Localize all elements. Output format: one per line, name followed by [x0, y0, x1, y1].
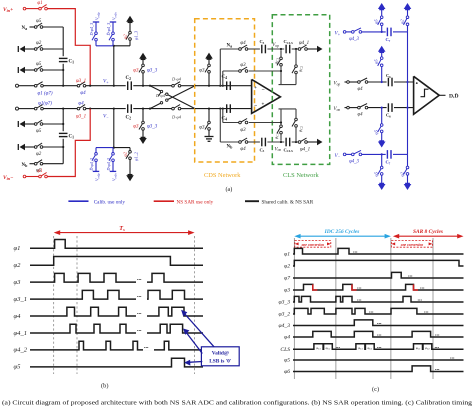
Vcm arrow above phi2 switch (top) [126, 16, 134, 22]
capacitor C4 (bottom) [222, 104, 231, 121]
wire phi3 feedback path (bottom) [223, 122, 281, 124]
svg-text:φ1 (φ7): φ1 (φ7) [37, 91, 52, 96]
switch phiC2 (top, CLS out to amp out) [292, 49, 303, 85]
capacitor C1 (top) [59, 58, 74, 64]
switch phi3 feedback (bottom) [239, 118, 249, 133]
wire phi2 bottom row [43, 146, 63, 148]
svg-text:Na: Na [22, 26, 28, 31]
Vcm arrow below phi2 switch (bottom) [126, 175, 134, 181]
svg-text:φ1: φ1 [37, 169, 42, 174]
switch phi1(phi7) on bottom rail [19, 101, 53, 110]
switch phi4 (top CLS path) [239, 41, 248, 51]
svg-text:D·φ4: D·φ4 [171, 114, 182, 119]
switch phi5 to Vcm (bottom left) [374, 154, 384, 183]
annotation arrow to phi5 [184, 360, 202, 366]
svg-text:φ3_1: φ3_1 [76, 115, 86, 120]
switch phi5 (bottom, to C1 top) [25, 120, 43, 134]
wire bottom rail after C2 [133, 108, 172, 110]
wire bottom rail inside CDS [195, 108, 252, 110]
wire V- row to C7 [362, 153, 386, 155]
wire C3 to Von node [267, 141, 284, 143]
op-amp A1 (fully differential) [252, 79, 281, 113]
wire top rail after C2 [133, 85, 172, 87]
switch Dbar.phi4_3 to Vrefp (bottom left, calib) [89, 148, 101, 181]
svg-text:one conversion: one conversion [302, 243, 324, 247]
capacitor C6 (bottom) [386, 103, 392, 118]
svg-text:φ4_2: φ4_2 [14, 347, 28, 354]
Vcm tap arrow (phi2 row top) [20, 46, 26, 52]
svg-text:φ4_3: φ4_3 [279, 323, 291, 329]
wire phi2 row to C1 top node [43, 48, 63, 50]
wire blue cluster horizontal (bottom) [96, 147, 114, 149]
wire C1 top plate node vertical [62, 27, 64, 56]
svg-text:...: ... [357, 297, 362, 303]
switch D.phi4 straight (bottom rail) [171, 105, 195, 120]
svg-text:φC1: φC1 [274, 133, 280, 139]
svg-text:...: ... [418, 297, 423, 303]
switch phi2 (bottom) [25, 143, 43, 157]
svg-text:φ5: φ5 [374, 171, 379, 176]
wire Vin- to rail V- (red) [47, 109, 90, 177]
svg-text:Vin+: Vin+ [3, 7, 13, 13]
switch Dbar.phi4_3 to Vrefn (top right, calib) [106, 12, 118, 46]
svg-text:(b): (b) [101, 383, 108, 390]
svg-text:+: + [254, 86, 257, 91]
svg-text:φ4: φ4 [284, 335, 290, 341]
timing (c) gridline 2 [335, 238, 337, 379]
Vcm tap arrow (phi5 row top) [20, 67, 26, 73]
svg-text:φ5: φ5 [36, 129, 42, 134]
capacitor C6 (top) [386, 73, 392, 86]
svg-text:D̄·φ4_3: D̄·φ4_3 [106, 23, 111, 37]
switch phi3 to Vcm (CDS top) [199, 58, 210, 85]
svg-text:φ2: φ2 [284, 264, 290, 270]
svg-text:C6: C6 [386, 73, 391, 79]
wire Vin+ to rail V+ (red) [47, 9, 90, 86]
switch D.phi4 straight (top rail) [171, 76, 195, 87]
wire bottom rail to junction [43, 108, 77, 110]
capacitor C7 (bottom) [386, 150, 392, 165]
wire Nb path horizontal [220, 141, 239, 143]
svg-text:...: ... [137, 276, 142, 282]
svg-text:φ3: φ3 [199, 69, 205, 74]
wire C1 bottom top plate vertical [62, 109, 64, 132]
svg-text:φ2: φ2 [123, 34, 128, 39]
switch phi5 to Vcm (top left) [374, 9, 384, 32]
wire C1 bottom to phi2/Nb rows [62, 139, 64, 164]
svg-text:φ4: φ4 [78, 102, 84, 107]
wire to C3 bottom [248, 141, 260, 143]
Vcm arrow (CDS top) [205, 53, 213, 59]
Vcm arrow blue (top, x408) [404, 3, 412, 9]
svg-text:φC1: φC1 [274, 58, 280, 64]
svg-text:Vrefn: Vrefn [112, 173, 118, 181]
switch phi4 (bottom CLS path) [239, 138, 248, 152]
switch D.phi4_3 to Vrefp (top left, calib) [89, 12, 101, 46]
wire C3 to Vop node [267, 48, 284, 50]
capacitor C3 (bottom) [260, 138, 266, 153]
svg-text:φ4_1: φ4_1 [299, 41, 309, 46]
svg-text:φ5: φ5 [374, 129, 379, 134]
svg-text:φ4: φ4 [357, 113, 363, 118]
svg-text:φ5: φ5 [36, 62, 42, 67]
switch phi3 to ground (CDS bottom) [199, 109, 210, 136]
wire CLS cap to phi4_1 switch (top) [292, 48, 299, 50]
svg-text:CLS: CLS [280, 347, 290, 353]
svg-text:φ1_3: φ1_3 [134, 30, 139, 40]
svg-text:φ3_1: φ3_1 [14, 296, 28, 303]
svg-text:...: ... [377, 320, 382, 326]
svg-text:φ7: φ7 [284, 276, 290, 282]
svg-text:(a) Circuit diagram of propose: (a) Circuit diagram of proposed architec… [2, 400, 473, 407]
switch phi5 to Vcm (above Vop row) [374, 52, 384, 82]
svg-text:φC2: φC2 [425, 346, 430, 351]
switch Dbar.phi4 cross (down diagonal) [150, 86, 195, 109]
svg-text:φ5: φ5 [284, 358, 290, 364]
switch phi4_1 (bottom) [298, 138, 310, 152]
switch phiC2 (bottom, CLS out to amp out) [292, 109, 303, 142]
switch phi5 (top, to C1 bottom) [25, 62, 43, 71]
wire C6 to comparator + [394, 81, 414, 83]
output arrow to comparator (top) [317, 46, 323, 52]
Vcm arrow blue (below Von) [378, 142, 386, 148]
switch phi1(phi7) on top rail [19, 82, 53, 97]
wire amp bottom output [279, 108, 297, 110]
timing (c) waveform φ1 [284, 248, 463, 257]
svg-text:φ4_1: φ4_1 [14, 330, 28, 337]
wire C1 bottom plate to rail V+ [62, 64, 64, 86]
svg-text:Vop: Vop [334, 81, 341, 86]
svg-text:φ4_3: φ4_3 [349, 160, 359, 165]
svg-text:C2: C2 [126, 116, 132, 121]
timing (c) waveform φ3_3 [279, 296, 464, 305]
svg-text:CDS Network: CDS Network [204, 172, 241, 179]
timing (b) waveform φ4_2 [14, 339, 204, 354]
svg-text:φ5: φ5 [374, 19, 379, 24]
capacitor C7 (top) [386, 28, 392, 43]
svg-text:φ4: φ4 [357, 87, 363, 92]
svg-text:D·φ4: D·φ4 [171, 76, 182, 81]
svg-text:φC2: φC2 [326, 346, 331, 351]
wire bottom rail V- segment to op-amp [86, 108, 126, 110]
input terminal (top rail) [16, 84, 19, 87]
wire CLS cap to phi4_1 switch (bottom) [292, 141, 299, 143]
timing (c) SAR 8 Cycles span arrow (red) [393, 229, 464, 238]
timing (c) one conversion box (SAR) [391, 241, 432, 248]
switch phi2 (top right summing) [399, 9, 409, 32]
svg-text:...: ... [137, 327, 142, 333]
wire phi3 path vertical to rail (top) [222, 71, 224, 86]
svg-text:φ6: φ6 [284, 369, 290, 375]
switch phi4_3 (V- row) [343, 150, 361, 164]
legend blue line [68, 200, 88, 202]
svg-text:C7: C7 [386, 160, 391, 166]
svg-text:(c): (c) [372, 386, 379, 393]
Vcm arrow above phi3 switch [139, 53, 147, 59]
capacitor C3 (top) [260, 39, 266, 53]
svg-text:φC1: φC1 [316, 346, 321, 351]
svg-text:...: ... [336, 344, 341, 350]
svg-text:CCLS: CCLS [284, 39, 294, 45]
svg-text:Shared calib. & NS SAR: Shared calib. & NS SAR [262, 199, 314, 205]
timing (b) Ts span arrow [54, 225, 195, 235]
timing (c) waveform φ3_2 [279, 308, 464, 317]
wire to output arrow (top) [307, 48, 317, 50]
svg-text:...: ... [377, 344, 382, 350]
timing (c) gridline 1 [293, 238, 295, 379]
Vcm arrow blue (bottom, x408) [404, 184, 412, 190]
svg-text:φ1: φ1 [14, 245, 21, 252]
switch phiC1 Vop to amp out (top) [274, 50, 283, 71]
svg-text:D̄·φ4: D̄·φ4 [155, 93, 166, 98]
svg-text:φ1: φ1 [37, 1, 42, 6]
svg-text:D̄·φ4_3: D̄·φ4_3 [89, 158, 94, 172]
svg-text:Calib. use only: Calib. use only [94, 199, 126, 205]
switch phi3_1/phi4 on top rail [76, 79, 86, 96]
svg-text:Na: Na [227, 44, 233, 49]
svg-text:D·φ4_3: D·φ4_3 [89, 23, 94, 37]
wire Vop row to C6 [368, 81, 387, 83]
svg-text:Vrefn: Vrefn [112, 12, 118, 20]
svg-text:Vop: Vop [272, 43, 279, 48]
Vcm tap arrow (phi2 row bottom) [20, 144, 26, 150]
wire Von row to C6 [368, 107, 387, 109]
svg-text:φ3_2: φ3_2 [279, 312, 291, 318]
svg-text:C1: C1 [69, 135, 75, 140]
svg-text:(a): (a) [226, 186, 233, 193]
svg-text:φ3: φ3 [133, 125, 139, 130]
annotation arrow to phi4 [181, 310, 214, 347]
switch phi5 to Vcm (below Von row) [374, 108, 384, 141]
svg-text:...: ... [420, 285, 425, 291]
svg-text:...: ... [408, 273, 413, 279]
svg-text:...: ... [435, 344, 440, 350]
svg-text:Von: Von [334, 107, 341, 112]
Vcm arrow blue (bottom, x382) [378, 184, 386, 190]
svg-text:...: ... [435, 332, 440, 338]
svg-text:φ3_3: φ3_3 [279, 300, 291, 306]
wire C7 to summing node [393, 31, 408, 33]
svg-text:NS SAR use only: NS SAR use only [177, 199, 214, 205]
timing (b) waveform φ5 [14, 358, 204, 371]
svg-text:φ3: φ3 [133, 69, 139, 74]
wire C7 to summing node (bottom) [393, 153, 408, 155]
svg-text:φ3: φ3 [14, 279, 22, 286]
svg-text:Nb: Nb [227, 144, 234, 149]
wire phi5 row to C1 bottom node [43, 69, 63, 71]
switch phi4 (Vop row) [345, 78, 368, 92]
svg-text:...: ... [144, 344, 149, 350]
svg-text:φ4: φ4 [80, 91, 86, 96]
svg-text:φ3_3: φ3_3 [147, 69, 158, 74]
capacitor CCLS (top) [284, 39, 294, 53]
switch phi4/phi3_1 on bottom rail [76, 102, 86, 120]
capacitor C1 (bottom) [59, 133, 74, 139]
wire junction to DAC cluster (top) [113, 46, 115, 86]
svg-text:φ3: φ3 [240, 128, 246, 133]
wire top rail V+ segment to op-amp [86, 85, 126, 87]
timing (b) waveform φ3 [14, 271, 204, 286]
svg-text:φ2: φ2 [14, 262, 22, 269]
svg-text:φ2: φ2 [36, 41, 42, 46]
Vcm arrow below phi3 switch (bottom) [139, 138, 147, 144]
svg-text:φ2: φ2 [123, 151, 128, 156]
svg-text:φ1: φ1 [284, 252, 290, 258]
wire phi5 row to C1 bottom node [43, 123, 63, 125]
svg-text:φC2: φC2 [298, 126, 304, 132]
timing (b) waveform φ3_1 [14, 288, 204, 303]
switch phi4_1 (top) [298, 41, 309, 51]
wire top rail to junction [43, 85, 77, 87]
svg-text:φ5: φ5 [36, 19, 42, 24]
timing (c) waveform φ4 [284, 331, 463, 340]
svg-text:...: ... [435, 366, 440, 372]
svg-text:LSB is '0': LSB is '0' [209, 359, 232, 365]
ground symbol (CDS bottom) [205, 136, 214, 138]
svg-text:φC2: φC2 [368, 346, 373, 351]
svg-text:D,D̄: D,D̄ [449, 93, 458, 100]
timing (b) dashed gridline 1 [53, 236, 55, 374]
timing (c) gridline 3 [390, 238, 392, 379]
svg-text:...: ... [450, 355, 455, 361]
wire Nb path vertical to bottom rail [219, 109, 221, 142]
timing (b) dashed gridline 3 [194, 236, 196, 374]
svg-text:φ4: φ4 [240, 147, 246, 152]
switch phi3 feedback (top) [239, 63, 249, 76]
svg-text:IDC 256 Cycles: IDC 256 Cycles [324, 229, 360, 235]
svg-text:−: − [254, 104, 257, 110]
svg-text:Von: Von [275, 147, 282, 152]
svg-text:+: + [262, 103, 265, 108]
svg-text:Vrefp: Vrefp [95, 173, 101, 181]
timing (b) dashed gridline 2 [76, 236, 78, 374]
timing (c) one conversion box (IDC) [295, 241, 331, 248]
switch phi2/phi1_2 to Vcm arrow (bottom) [114, 148, 139, 175]
svg-text:Ts: Ts [119, 225, 125, 232]
svg-text:C3: C3 [260, 39, 265, 45]
timing (b) waveform φ4_1 [14, 322, 204, 337]
wire top rail inside CDS [195, 85, 252, 87]
wire summing node vertical (blue) [407, 32, 409, 154]
capacitor C2 (top rail) [126, 76, 132, 90]
svg-text:Nb: Nb [22, 163, 29, 168]
switch Dbar.phi4 cross (up diagonal) [150, 86, 195, 109]
CDS network dashed box [195, 19, 255, 162]
svg-text:φ3_3: φ3_3 [147, 125, 158, 130]
timing (c) waveform φ7 [284, 272, 463, 281]
timing (c) waveform φ2 [284, 260, 463, 269]
input terminal (bottom rail) [16, 107, 19, 110]
switch phi4_3 (V+ row) [343, 28, 361, 42]
svg-text:φ4_3: φ4_3 [349, 37, 359, 42]
svg-text:φ2: φ2 [399, 171, 404, 176]
svg-text:φ3_1: φ3_1 [76, 79, 86, 84]
wire comparator output [439, 94, 445, 96]
svg-text:φ1(φ7): φ1(φ7) [38, 101, 52, 106]
wire phi3 path vertical to rail (bottom) [222, 109, 224, 123]
svg-text:C1: C1 [69, 60, 75, 65]
svg-text:one conversion: one conversion [401, 243, 423, 247]
svg-text:...: ... [377, 332, 382, 338]
svg-text:C7: C7 [386, 37, 391, 43]
svg-text:φ3: φ3 [240, 63, 246, 68]
svg-text:...: ... [353, 249, 358, 255]
svg-text:CCLS: CCLS [284, 147, 294, 153]
wire Nb row [43, 163, 63, 165]
switch phi1 (Vin- input, NS SAR only) [23, 169, 47, 178]
wire Na path vertical to top rail [219, 49, 221, 86]
wire blue cluster horizontal (top) [96, 45, 114, 47]
svg-text:φ2: φ2 [399, 19, 404, 24]
svg-text:CLS Network: CLS Network [283, 172, 319, 179]
svg-text:...: ... [369, 309, 374, 315]
switch phi2 (top) [25, 41, 43, 50]
timing (b) waveform φ2 [14, 257, 204, 270]
capacitor CCLS (bottom) [284, 138, 294, 153]
timing (c) waveform φ3 [284, 284, 463, 293]
switch D.phi4_3 to Vrefn (bottom right, calib) [106, 148, 118, 181]
svg-text:Valid@: Valid@ [212, 351, 229, 357]
svg-text:φ5: φ5 [374, 59, 379, 64]
wire junction to DAC cluster (bottom) [113, 109, 115, 148]
switch phi3/phi3_3 to Vcm (top rail) [133, 59, 158, 86]
wire to C3 top [248, 48, 260, 50]
timing (c) waveform φ4_3 [279, 320, 464, 329]
svg-text:φ5: φ5 [14, 364, 22, 371]
svg-text:φ4: φ4 [14, 313, 22, 320]
wire C6 to comparator - [394, 107, 414, 109]
capacitor C2 (bottom rail) [126, 104, 132, 120]
svg-text:φ2: φ2 [36, 152, 42, 157]
capacitor C4 (top) [222, 75, 231, 90]
timing (b) waveform φ4 [14, 305, 204, 320]
svg-text:−: − [262, 87, 265, 93]
timing (b) Valid LSB annotation box [201, 347, 239, 366]
switch phi1 (Vin+ input, NS SAR only) [23, 1, 47, 10]
wire V+ row to C7 [362, 31, 386, 33]
svg-text:Vrefp: Vrefp [95, 12, 101, 20]
comparator U1 [414, 76, 440, 114]
svg-text:φC2: φC2 [298, 66, 304, 72]
svg-text:C3: C3 [260, 147, 265, 153]
annotation arrow to phi4_1 [183, 329, 202, 354]
timing (c) gridline 4 [432, 238, 434, 379]
Vcm arrow blue (above Vop) [378, 46, 386, 52]
svg-text:...: ... [424, 309, 429, 315]
svg-text:D·φ4_3: D·φ4_3 [106, 158, 111, 172]
wire phi3 feedback path (top) [223, 70, 281, 72]
timing (c) waveform CLS [280, 344, 463, 353]
svg-text:φ3: φ3 [199, 126, 205, 131]
timing (c) IDC 256 Cycles span arrow (blue) [294, 229, 391, 238]
switch phi5 (Na) [30, 19, 43, 28]
CLS network dashed box [272, 15, 329, 165]
svg-text:Vin−: Vin− [3, 175, 13, 181]
switch phi5 (Nb) [30, 160, 43, 174]
svg-text:φC1: φC1 [358, 346, 363, 351]
timing (b) waveform φ1 [14, 240, 204, 253]
output arrow to comparator (bottom) [317, 139, 323, 145]
svg-text:...: ... [357, 285, 362, 291]
Vcm arrow blue (top, x382) [378, 3, 386, 9]
switch phi4 (Von row) [345, 104, 368, 118]
svg-text:φ4_1: φ4_1 [300, 147, 310, 152]
switch phi2 (bottom right summing) [399, 154, 409, 183]
wire Na path horizontal [220, 48, 239, 50]
legend black line [245, 200, 259, 202]
timing (c) waveform φ5 [284, 355, 463, 364]
switch phiC1 Von to amp out (bottom) [274, 123, 283, 141]
